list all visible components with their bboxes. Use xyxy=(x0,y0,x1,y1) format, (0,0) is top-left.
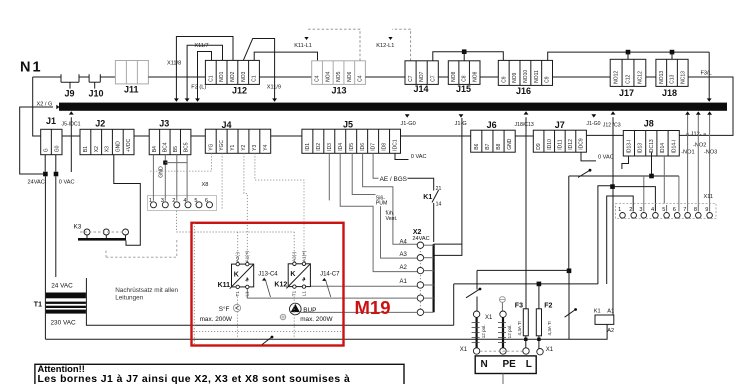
terminal K3-3 xyxy=(123,229,129,235)
wire bracket X11/8 to J12-NO2 xyxy=(176,37,233,100)
svg-text:5: 5 xyxy=(662,207,665,213)
svg-text:X2: X2 xyxy=(94,146,100,152)
svg-text:L: L xyxy=(526,359,532,370)
fuse F3 xyxy=(523,309,528,336)
terminal X8-1 xyxy=(151,202,157,208)
svg-text:ID5: ID5 xyxy=(349,143,355,151)
terminal X2 A1 xyxy=(417,282,423,288)
relay K12 pins xyxy=(293,262,306,288)
svg-text:ID6: ID6 xyxy=(360,143,366,151)
svg-text:J10: J10 xyxy=(89,89,104,99)
wire -NO2 bar to X11-8 xyxy=(697,112,699,212)
connector J3 xyxy=(149,129,191,154)
relay K11 pin labels xyxy=(235,250,250,296)
relay K12 box xyxy=(286,264,310,289)
fan circle symbol xyxy=(233,304,240,311)
svg-text:G: G xyxy=(44,148,50,152)
svg-text:J8: J8 xyxy=(644,118,654,128)
connector J7 xyxy=(533,130,586,152)
connector J6 xyxy=(471,130,516,152)
cable N with ticks xyxy=(472,317,480,347)
wire bracket X11/7 to J12-NO1 xyxy=(187,45,222,99)
svg-text:3: 3 xyxy=(639,207,642,213)
svg-text:L1: L1 xyxy=(301,291,306,297)
svg-text:J18: J18 xyxy=(662,88,677,98)
svg-text:J9: J9 xyxy=(65,89,75,99)
svg-text:F3/L: F3/L xyxy=(701,70,712,76)
svg-text:ID12: ID12 xyxy=(568,139,574,150)
svg-text:Y4: Y4 xyxy=(263,144,269,150)
svg-text:Y3: Y3 xyxy=(252,144,258,150)
wire J3-BC5 down to X8-4 xyxy=(186,155,188,201)
dotted branch to K11 A2- xyxy=(237,232,239,262)
svg-text:GND: GND xyxy=(158,166,164,178)
terminal X1 N bottom xyxy=(473,348,479,354)
svg-text:J5-IDC1: J5-IDC1 xyxy=(62,121,81,127)
wire N branch with switch xyxy=(476,270,478,289)
svg-text:AE / BGS: AE / BGS xyxy=(380,176,407,183)
junction square 0VAC xyxy=(54,172,59,177)
junction W_a xyxy=(567,269,572,274)
arrow F3/L into bar xyxy=(707,98,712,101)
svg-text:NC13: NC13 xyxy=(680,71,686,84)
dotted wire Y3 to K12 A1+ xyxy=(255,153,304,261)
svg-text:J1: J1 xyxy=(46,116,56,126)
svg-text:C9: C9 xyxy=(501,76,507,83)
svg-text:NO13: NO13 xyxy=(659,71,665,84)
svg-text:T1: T1 xyxy=(34,302,42,309)
svg-text:X11/7: X11/7 xyxy=(194,43,208,49)
svg-text:F2 (L): F2 (L) xyxy=(191,85,206,91)
svg-text:+VDC: +VDC xyxy=(126,138,132,152)
terminal X11-1 xyxy=(620,213,626,219)
svg-text:8: 8 xyxy=(694,207,697,213)
svg-text:X11: X11 xyxy=(704,194,714,200)
svg-text:NO4: NO4 xyxy=(325,71,331,82)
svg-text:1: 1 xyxy=(149,198,152,204)
svg-text:6: 6 xyxy=(673,207,676,213)
svg-text:NO9: NO9 xyxy=(512,72,518,83)
svg-text:NO2: NO2 xyxy=(230,71,236,82)
svg-text:3: 3 xyxy=(161,198,164,204)
wire junction down to J18-C13 xyxy=(671,52,673,59)
svg-text:NC12: NC12 xyxy=(637,71,643,84)
arrow into bar left xyxy=(56,105,59,110)
wire -NO1 bar to X11-7 xyxy=(687,112,689,212)
svg-text:Nachrüstsatz mit allen: Nachrüstsatz mit allen xyxy=(115,287,178,294)
svg-text:A1(+): A1(+) xyxy=(301,250,306,262)
svg-text:NO8: NO8 xyxy=(472,71,478,82)
wire diagonal from J12-NO3 to X11/9 xyxy=(243,39,274,100)
wire J5-IDC1 from bar down xyxy=(70,117,72,172)
terminal X11-2 xyxy=(631,213,637,219)
svg-text:B8: B8 xyxy=(496,143,502,149)
stub X2 to bus xyxy=(424,257,434,259)
wire rail left end down to W_a xyxy=(568,176,570,271)
arrow K12-L1 xyxy=(388,37,392,40)
svg-text:Leitungen: Leitungen xyxy=(115,294,144,301)
arrow F2(L) into bar xyxy=(195,98,200,101)
terminal box N PE L xyxy=(475,356,536,374)
svg-text:C7: C7 xyxy=(430,75,436,82)
label Nachrustsatz xyxy=(115,287,178,302)
junction K1A1 rail xyxy=(610,184,615,189)
wire J3-BC4 down to X8-3 xyxy=(164,155,166,201)
wire top-left from N1 to J9 xyxy=(33,76,61,78)
arrow -NO2 into bar xyxy=(696,111,701,114)
svg-text:X1: X1 xyxy=(460,347,468,353)
svg-text:NO10: NO10 xyxy=(523,70,529,83)
svg-text:Attention!!: Attention!! xyxy=(38,363,85,374)
svg-text:M19: M19 xyxy=(355,297,391,318)
connector J5 xyxy=(302,129,401,153)
rail IDC13 to left with switch xyxy=(569,175,679,177)
svg-text:X8: X8 xyxy=(202,182,209,188)
terminal strip X11 outline xyxy=(616,204,717,219)
terminal X2 aux xyxy=(417,295,423,301)
svg-text:J7: J7 xyxy=(555,120,565,130)
arrow J1-G0 from bar down xyxy=(405,114,410,117)
arrow J18/C13 into bar xyxy=(524,111,529,114)
svg-text:0 VAC: 0 VAC xyxy=(411,154,427,160)
svg-text:21: 21 xyxy=(436,186,442,192)
dotted bottom rail in box xyxy=(193,331,343,333)
connector J12 xyxy=(205,60,259,84)
arrow J1-G0 second from bar down xyxy=(591,114,596,117)
connector J11 xyxy=(115,61,148,84)
svg-text:L1: L1 xyxy=(245,291,250,297)
svg-text:K: K xyxy=(234,271,239,278)
svg-text:C12: C12 xyxy=(626,75,632,84)
connector J1 xyxy=(41,129,62,154)
svg-text:« J12- »: « J12- » xyxy=(686,132,706,138)
pump symbol BUP xyxy=(290,303,302,315)
svg-text:J17: J17 xyxy=(619,88,634,98)
svg-text:NO7: NO7 xyxy=(419,71,425,82)
svg-text:S°F: S°F xyxy=(219,305,230,313)
svg-text:C1: C1 xyxy=(252,75,258,82)
wire ID13-I hook xyxy=(622,156,629,169)
arrow J14-C7 xyxy=(322,278,326,281)
wire between J9 and J10 xyxy=(79,76,89,78)
svg-text:G0: G0 xyxy=(54,145,60,152)
connector J8 xyxy=(623,131,679,157)
svg-text:1: 1 xyxy=(618,207,621,213)
wire F2 top xyxy=(538,284,540,309)
svg-text:C4: C4 xyxy=(315,75,321,82)
terminal X11-6 xyxy=(674,213,680,219)
svg-text:GND: GND xyxy=(115,141,121,152)
wire IDC13 down to junction xyxy=(651,152,653,176)
wire vertical from N1 rail down to J1 xyxy=(33,77,41,136)
wire J1 to J2 xyxy=(62,135,80,137)
switch on rail xyxy=(578,169,591,178)
svg-text:B4: B4 xyxy=(152,146,158,152)
wire X2/G to left and down to 24VAC junction xyxy=(20,107,53,174)
transformer T1 windings xyxy=(46,293,86,314)
svg-text:IDC1: IDC1 xyxy=(393,139,399,151)
svg-text:A2(-): A2(-) xyxy=(235,252,240,263)
svg-text:24VAC: 24VAC xyxy=(412,236,429,242)
wire J13 to J14 xyxy=(365,76,405,78)
svg-text:230 VAC: 230 VAC xyxy=(51,319,76,326)
svg-text:0 VAC: 0 VAC xyxy=(59,179,75,185)
wire aux6 from BUP xyxy=(301,311,417,313)
svg-text:J4: J4 xyxy=(222,120,232,130)
svg-text:ID13: ID13 xyxy=(638,143,644,154)
svg-text:NO3: NO3 xyxy=(241,71,247,82)
dotted below K11-T1 xyxy=(236,297,238,340)
svg-text:K11: K11 xyxy=(218,282,231,289)
arrow X11/7 into bar xyxy=(185,98,190,101)
svg-text:4,3A Tr: 4,3A Tr xyxy=(517,320,522,335)
svg-text:4,3A Tr: 4,3A Tr xyxy=(547,320,552,335)
terminal X1 PE bottom xyxy=(500,348,506,354)
terminal K3-2 xyxy=(103,229,109,235)
wire J3 to J4 xyxy=(191,135,205,137)
wire J4 to J5 xyxy=(271,135,302,137)
wire A1 from K12-L1 xyxy=(304,285,418,287)
wire rail down to X11-6 xyxy=(678,176,680,212)
wire rail down to X11-3 xyxy=(643,176,645,212)
svg-text:NO12: NO12 xyxy=(614,71,620,84)
svg-text:J1-G0: J1-G0 xyxy=(586,121,600,127)
wire J18/C13 from bar down to fuse F3 xyxy=(525,117,527,308)
svg-text:12 pol.: 12 pol. xyxy=(481,325,486,339)
wire ID7 to AE/BGS xyxy=(373,153,378,178)
dash-dot inner boundary xyxy=(193,223,195,345)
svg-text:F2: F2 xyxy=(544,303,552,310)
svg-text:ID13-I: ID13-I xyxy=(627,140,633,154)
svg-text:X2: X2 xyxy=(413,229,422,236)
svg-text:X11/8: X11/8 xyxy=(167,61,181,67)
svg-text:J13-C4: J13-C4 xyxy=(258,271,278,277)
svg-text:J12: J12 xyxy=(232,85,247,95)
fuse F2 xyxy=(536,309,541,336)
terminal X2 A2 xyxy=(417,267,423,273)
wire F3 bottom xyxy=(525,336,527,348)
svg-text:C13: C13 xyxy=(670,75,676,84)
wire AE/BGS to K1 contact xyxy=(408,178,434,190)
svg-text:IDC9: IDC9 xyxy=(579,138,585,150)
svg-text:A2(-): A2(-) xyxy=(292,251,297,262)
svg-text:J14: J14 xyxy=(414,84,429,94)
junction IDC13 rail xyxy=(649,174,654,179)
svg-text:K1: K1 xyxy=(594,308,601,314)
wire J16 to J17 xyxy=(553,76,611,78)
stub X2 to bus xyxy=(424,297,434,299)
terminal X8-5 xyxy=(196,202,202,208)
wire bracket J16-C9 right to F3/L with junctions to J17-C12 and J18-C13 xyxy=(548,52,710,60)
svg-text:9: 9 xyxy=(705,207,708,213)
stub X2 to bus xyxy=(424,270,434,272)
svg-text:-NO2: -NO2 xyxy=(693,143,706,149)
switch N xyxy=(466,288,481,298)
connector J17 xyxy=(610,59,646,86)
connector J16 xyxy=(498,60,552,85)
svg-text:K12-L1: K12-L1 xyxy=(376,43,394,49)
wire J18 right down to J8 xyxy=(679,77,733,135)
svg-text:PUM: PUM xyxy=(376,201,388,207)
arrow X11/8 into bar xyxy=(174,98,179,101)
svg-text:Y1: Y1 xyxy=(230,144,236,150)
wire 24VAC down to transformer xyxy=(44,176,46,339)
terminal X1 N top xyxy=(473,311,479,317)
wire -NO3 bar to X11-9 xyxy=(709,112,711,212)
svg-text:ID1: ID1 xyxy=(305,143,311,151)
X2 bus thick vertical xyxy=(433,244,435,312)
svg-text:J2: J2 xyxy=(95,118,105,128)
wire N switch to terminal xyxy=(476,297,478,312)
connector J15 xyxy=(448,61,480,85)
terminal X1 PE top xyxy=(500,311,506,317)
dashed neutral link xyxy=(480,350,523,352)
wire K1A1 junction to X11-4 xyxy=(613,187,655,212)
dashed wire J14-C7 to K12-L1 xyxy=(392,29,411,61)
relay K12 pin labels xyxy=(292,250,307,296)
svg-text:2: 2 xyxy=(629,207,632,213)
switch on K1-A2 return xyxy=(565,308,577,317)
wire J12 to J13 xyxy=(259,76,311,78)
wire ID4 to A2 xyxy=(340,153,417,271)
dashed link K3 terminals xyxy=(80,231,126,233)
connector J9 xyxy=(61,74,79,88)
svg-text:ID14-I: ID14-I xyxy=(671,140,677,154)
dashed enclosure around K3 xyxy=(106,240,177,257)
svg-text:Y2: Y2 xyxy=(241,144,247,150)
cable PE with ticks xyxy=(498,317,506,347)
wire bottom to K1 coil A2 xyxy=(569,324,607,339)
svg-text:PE: PE xyxy=(503,359,517,370)
svg-text:ID8: ID8 xyxy=(382,143,388,151)
wire bottom rail xyxy=(45,338,569,340)
red box M19 xyxy=(192,223,344,346)
svg-text:max. 200W: max. 200W xyxy=(300,316,333,323)
junction BC4/BC5 xyxy=(163,161,167,165)
svg-text:K11-L1: K11-L1 xyxy=(294,43,312,49)
wire bracket J14-C7 to J16-C9 with junction to J15-C8 xyxy=(433,52,504,61)
stub X2 to bus xyxy=(424,244,434,246)
junction square 24VAC xyxy=(43,172,48,177)
connector X8 outline xyxy=(148,196,217,211)
svg-text:C7: C7 xyxy=(408,75,414,82)
svg-text:K1: K1 xyxy=(423,194,432,201)
K3 bus bar xyxy=(78,238,126,241)
wire jumper BC4 to BC5 xyxy=(165,162,187,164)
svg-text:A4: A4 xyxy=(400,239,408,245)
svg-text:J6: J6 xyxy=(487,120,497,130)
terminal X11-5 xyxy=(664,213,670,219)
arrow -NO3 into bar xyxy=(707,111,712,114)
svg-text:T1: T1 xyxy=(235,291,240,297)
svg-text:GND: GND xyxy=(507,138,513,150)
terminal X1 L1 bottom xyxy=(523,348,529,354)
dotted below K12-T1 xyxy=(293,297,295,340)
wire transformer right side down to 230VAC feed xyxy=(86,278,453,325)
svg-text:J18/C13: J18/C13 xyxy=(515,122,534,128)
svg-text:J13: J13 xyxy=(332,85,347,95)
svg-text:ID2: ID2 xyxy=(316,143,322,151)
svg-text:A1: A1 xyxy=(607,308,614,314)
svg-text:14: 14 xyxy=(436,202,442,208)
terminal X8-4 xyxy=(185,202,191,208)
svg-text:C4: C4 xyxy=(358,75,364,82)
svg-text:5: 5 xyxy=(194,198,197,204)
stub X11-5 xyxy=(666,205,668,212)
wire J1-G down to 24VAC junction xyxy=(44,155,46,172)
svg-text:24VAC: 24VAC xyxy=(28,179,45,185)
svg-text:A2: A2 xyxy=(607,328,614,334)
wire PE down xyxy=(501,302,503,311)
wire ID6 down to A4 xyxy=(363,153,418,244)
connector J13 xyxy=(312,61,366,85)
wire aux5 from K11-L1 xyxy=(247,289,417,298)
svg-text:IDC13: IDC13 xyxy=(649,139,655,153)
wire J3-B5 down to X8-2 xyxy=(176,155,178,201)
wire J10 to J11 xyxy=(100,76,115,78)
junction above J17 xyxy=(626,50,631,55)
svg-text:ID14: ID14 xyxy=(660,143,666,154)
wire J17 to J18 xyxy=(646,76,656,78)
wire J3-B4 down to X8-1 xyxy=(152,155,154,201)
terminal X11-8 xyxy=(696,213,702,219)
wire 0VAC down xyxy=(55,176,57,277)
connector J2 xyxy=(80,129,134,154)
wire J12/C3 from bar down to K1 coil A1 xyxy=(612,117,614,315)
leader J14-C7 xyxy=(326,281,331,297)
wire J2 to J3 xyxy=(134,135,149,137)
svg-text:YGC: YGC xyxy=(219,140,225,151)
dotted branch to K12 A2- xyxy=(293,232,295,261)
label Fuh Vent xyxy=(386,210,398,222)
svg-text:K3: K3 xyxy=(74,224,82,231)
wire J1-G down to X2 bus xyxy=(434,118,462,255)
dotted wire YG xyxy=(150,153,212,171)
svg-text:4: 4 xyxy=(183,198,186,204)
dotted wire Y2 to K11 A1+ xyxy=(244,153,247,262)
svg-text:J11: J11 xyxy=(124,84,139,94)
svg-text:X1: X1 xyxy=(546,347,554,353)
svg-text:ID3: ID3 xyxy=(327,143,333,151)
svg-text:J12 /C3: J12 /C3 xyxy=(603,122,621,128)
K1 coil xyxy=(595,315,614,324)
svg-text:2: 2 xyxy=(172,198,175,204)
stub X2 to bus xyxy=(424,311,434,313)
junction dot F3 bottom xyxy=(524,338,527,341)
svg-text:BC4: BC4 xyxy=(162,142,168,152)
svg-text:A3: A3 xyxy=(400,252,408,258)
svg-text:D9: D9 xyxy=(536,143,542,150)
terminal X1 L2 bottom xyxy=(537,349,543,355)
svg-text:ID11: ID11 xyxy=(557,139,563,149)
svg-text:24 VAC: 24 VAC xyxy=(51,283,73,290)
dashed wire J13-C4 to K11-L1 xyxy=(308,29,360,61)
terminal X8-2 xyxy=(174,202,180,208)
svg-text:J1-G0: J1-G0 xyxy=(401,121,416,127)
wire ID5 to Si6-PUM xyxy=(352,153,375,194)
terminal X2 aux xyxy=(417,309,423,315)
svg-text:YG: YG xyxy=(208,143,214,150)
wire junction down to J17-C12 xyxy=(627,52,629,59)
wire PE below box xyxy=(502,374,504,384)
wire IDC1 hook to 0 VAC xyxy=(395,153,409,159)
svg-text:J5: J5 xyxy=(343,120,353,130)
svg-text:J3: J3 xyxy=(159,118,169,128)
dotted wire YGC xyxy=(221,153,223,209)
wire F3/L down to bar xyxy=(708,52,710,99)
junction on bracket above J15 xyxy=(462,49,467,54)
svg-text:NO5: NO5 xyxy=(336,71,342,82)
